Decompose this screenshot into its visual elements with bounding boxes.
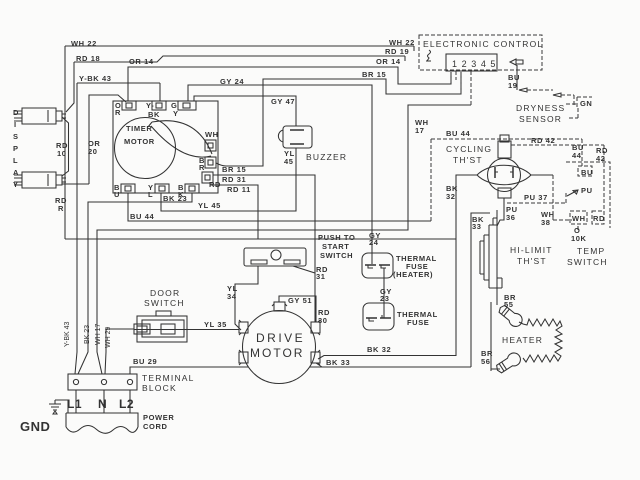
svg-text:Y: Y <box>173 109 179 118</box>
L1 N L2 labels <box>67 397 134 411</box>
svg-text:20: 20 <box>88 147 98 156</box>
svg-text:OR 14: OR 14 <box>129 57 154 66</box>
dryness sensor connector arrows <box>519 88 574 106</box>
wire GY 23 between fuses <box>380 268 392 318</box>
control input squiggle <box>426 50 431 61</box>
ground symbol and GND <box>20 400 68 434</box>
wire BU 44 timer to cycling area <box>128 193 431 221</box>
svg-text:WH 22: WH 22 <box>71 39 97 48</box>
svg-text:TIMER: TIMER <box>126 124 152 133</box>
cycling thermostat <box>446 135 531 198</box>
display connector lower <box>14 172 66 188</box>
svg-text:MOTOR: MOTOR <box>124 137 155 146</box>
svg-text:POWER: POWER <box>143 413 174 422</box>
svg-text:L: L <box>148 190 153 199</box>
svg-text:33: 33 <box>472 222 482 231</box>
svg-text:56: 56 <box>481 357 491 366</box>
svg-text:BR 15: BR 15 <box>222 165 246 174</box>
svg-text:TERMINAL: TERMINAL <box>142 373 195 383</box>
svg-text:N: N <box>98 397 107 411</box>
wire RD bus display to right <box>65 238 456 240</box>
svg-text:19: 19 <box>508 81 518 90</box>
heater lower terminal cone <box>481 302 523 376</box>
svg-text:23: 23 <box>380 294 390 303</box>
wire BU 29 terminal block to motor circuit <box>130 357 248 374</box>
svg-text:CORD: CORD <box>143 422 167 431</box>
drive motor <box>243 311 316 384</box>
motor terminal left-upper <box>239 320 248 335</box>
hi-limit thermostat <box>480 210 553 305</box>
wire WH 29 door switch to terminal block <box>105 329 134 374</box>
thermal fuse heater <box>362 253 437 279</box>
svg-text:12345: 12345 <box>452 59 500 69</box>
svg-text:U: U <box>114 190 120 199</box>
temp switch text <box>567 246 608 267</box>
svg-text:RD 18: RD 18 <box>76 54 100 63</box>
wire GY 51 motor top loop <box>279 296 316 322</box>
temp switch terminal WH <box>570 211 587 224</box>
wire BR 15 timer to control <box>216 70 461 174</box>
svg-text:Y-BK 43: Y-BK 43 <box>79 74 112 83</box>
wire RD 11 timer to bus <box>210 185 258 239</box>
temp switch resistor 10K <box>571 226 587 243</box>
svg-text:17: 17 <box>415 126 425 135</box>
electronic control box <box>419 35 543 70</box>
svg-text:BK 23: BK 23 <box>163 194 187 203</box>
wire RD 31 timer to push-to-start <box>213 175 328 281</box>
timer terminal BU <box>114 183 135 199</box>
wire RD 18 / RD 19 horizontal <box>74 47 409 63</box>
svg-text:36: 36 <box>506 213 516 222</box>
svg-text:TH'ST: TH'ST <box>453 155 483 165</box>
svg-text:BK 23: BK 23 <box>84 325 91 344</box>
svg-text:I: I <box>14 120 17 129</box>
wire Y-BK 43 left vertical to terminal block <box>75 83 77 374</box>
svg-text:ELECTRONIC CONTROL: ELECTRONIC CONTROL <box>423 39 543 49</box>
svg-text:SWITCH: SWITCH <box>567 257 608 267</box>
timer terminal Y-BK <box>146 101 166 119</box>
timer terminal G-Y <box>171 101 196 118</box>
timer terminal BK <box>178 183 199 199</box>
timer motor box <box>113 101 218 193</box>
dryness sensor label GN <box>577 97 592 108</box>
wire BU 19 <box>508 65 520 90</box>
control connector arrow right <box>510 59 523 65</box>
push to start switch <box>244 233 355 266</box>
timer terminal WH <box>205 130 219 151</box>
svg-text:(HEATER): (HEATER) <box>393 270 433 279</box>
svg-text:RD 31: RD 31 <box>222 175 246 184</box>
rotated wire labels <box>64 321 112 348</box>
wire WH 22 left vertical / RD R down to bus <box>55 46 67 239</box>
svg-text:GND: GND <box>20 419 50 434</box>
svg-text:Y-BK 43: Y-BK 43 <box>64 321 71 347</box>
svg-text:PUSH TO: PUSH TO <box>318 233 355 242</box>
svg-text:P: P <box>13 144 19 153</box>
thermal fuse lower <box>363 303 438 330</box>
svg-text:10: 10 <box>57 149 67 158</box>
svg-text:GY 51: GY 51 <box>288 296 312 305</box>
svg-text:PU 37: PU 37 <box>524 193 548 202</box>
svg-text:YL 35: YL 35 <box>204 320 227 329</box>
svg-text:BU 44: BU 44 <box>130 212 154 221</box>
power cord <box>66 413 174 433</box>
timer terminal YL <box>148 183 169 199</box>
dryness sensor text <box>516 103 578 124</box>
svg-text:R: R <box>199 163 205 172</box>
svg-text:L1: L1 <box>67 397 82 411</box>
svg-text:GY 24: GY 24 <box>220 77 244 86</box>
svg-text:32: 32 <box>446 192 456 201</box>
door switch <box>134 288 187 342</box>
svg-text:BK 33: BK 33 <box>326 358 350 367</box>
wire BK 23 timer to terminal block <box>78 193 192 374</box>
wire BK 32 cycling to motor <box>318 175 477 359</box>
svg-text:R: R <box>58 204 64 213</box>
svg-text:10K: 10K <box>571 234 587 243</box>
wire BU 44 riser and dashed run to temp switch <box>431 129 584 221</box>
svg-text:CYCLING: CYCLING <box>446 144 492 154</box>
svg-text:BLOCK: BLOCK <box>142 383 177 393</box>
wires terminal block to power cord <box>76 390 130 413</box>
svg-text:OR 14: OR 14 <box>376 57 401 66</box>
electronic control terminal strip 1 2 3 4 5 <box>446 54 500 71</box>
temp switch wiper arrow PU <box>567 186 593 196</box>
wire PU 36 cycling to hi-limit <box>497 198 518 226</box>
svg-text:SENSOR: SENSOR <box>519 114 562 124</box>
svg-text:RD 19: RD 19 <box>385 47 409 56</box>
svg-text:34: 34 <box>227 292 237 301</box>
svg-text:HEATER: HEATER <box>502 335 543 345</box>
wire YL 34 push-to-start to motor <box>227 266 258 330</box>
motor terminal left-lower <box>239 350 248 365</box>
motor terminal top <box>272 302 287 311</box>
svg-text:WH 17: WH 17 <box>95 324 102 346</box>
svg-text:55: 55 <box>504 300 514 309</box>
timer terminal RD <box>202 172 221 189</box>
wire RD 18 vertical to display <box>66 62 74 112</box>
wire WH 38 dashed cycling right to temp switch <box>530 175 572 227</box>
svg-text:DRYNESS: DRYNESS <box>516 103 565 113</box>
timer terminal OR <box>115 101 136 117</box>
wire WH 17 riser to control <box>470 71 472 105</box>
svg-text:BR 15: BR 15 <box>362 70 386 79</box>
display connector upper <box>14 108 66 124</box>
wire WH 17 long neutral run <box>97 105 471 374</box>
wire GY 47 from timer to buzzer <box>194 96 296 126</box>
svg-text:DRIVE: DRIVE <box>256 331 305 345</box>
svg-text:TEMP: TEMP <box>577 246 605 256</box>
svg-text:BU 44: BU 44 <box>446 129 470 138</box>
svg-text:BK: BK <box>148 110 160 119</box>
motor terminal right-upper <box>311 320 320 335</box>
wire RD 30 push-to-start to motor <box>315 273 330 325</box>
svg-text:SWITCH: SWITCH <box>320 251 353 260</box>
control terminal tails dashed <box>451 71 461 94</box>
svg-text:RD: RD <box>593 214 605 223</box>
svg-text:RD 11: RD 11 <box>227 185 251 194</box>
svg-text:L: L <box>13 156 18 165</box>
svg-text:WH 22: WH 22 <box>389 38 415 47</box>
svg-text:HI-LIMIT: HI-LIMIT <box>510 245 553 255</box>
svg-text:38: 38 <box>541 218 551 227</box>
svg-text:WH: WH <box>572 214 586 223</box>
wire BK 33 motor to hi-limit <box>310 213 490 367</box>
wire RD 42 dashed cycling to temp switch <box>511 136 608 211</box>
svg-text:MOTOR: MOTOR <box>250 346 304 360</box>
svg-text:SWITCH: SWITCH <box>144 298 185 308</box>
svg-text:D: D <box>13 108 19 117</box>
svg-text:A: A <box>13 168 19 177</box>
svg-text:Y-: Y- <box>146 101 154 110</box>
wire GY 24 from timer to thermal fuse <box>188 77 381 264</box>
wire OR 20 from lower connector to timer <box>62 95 126 184</box>
svg-text:GY 47: GY 47 <box>271 97 295 106</box>
terminal block <box>68 373 195 393</box>
temp switch terminal BU <box>578 166 593 177</box>
svg-text:YL 45: YL 45 <box>198 201 221 210</box>
svg-text:GN: GN <box>580 99 592 108</box>
timer terminal BR <box>199 156 216 172</box>
svg-text:S: S <box>13 132 19 141</box>
svg-text:DOOR: DOOR <box>150 288 180 298</box>
svg-text:WH 29: WH 29 <box>105 327 112 349</box>
svg-text:44: 44 <box>572 151 582 160</box>
display vertical label <box>13 108 19 189</box>
wire YL 45 buzzer to timer YL <box>161 148 296 211</box>
svg-text:FUSE: FUSE <box>407 318 429 327</box>
heater upper terminal cone <box>496 293 525 329</box>
svg-text:BU 29: BU 29 <box>133 357 157 366</box>
svg-text:START: START <box>322 242 349 251</box>
svg-text:Y: Y <box>13 180 19 189</box>
buzzer <box>278 126 347 166</box>
timer cam arm curves <box>148 121 212 157</box>
heater coil <box>502 319 562 362</box>
svg-text:RD 42: RD 42 <box>531 136 555 145</box>
wire Y-BK 43 top horizontal <box>77 74 160 101</box>
svg-text:L2: L2 <box>119 397 134 411</box>
temp switch dashed outline <box>566 162 610 228</box>
svg-text:BK 32: BK 32 <box>367 345 391 354</box>
svg-text:45: 45 <box>284 157 294 166</box>
wire WH 22 top horizontal <box>65 38 415 51</box>
wire OR 14 horizontal from timer to control <box>128 57 451 101</box>
svg-text:PU: PU <box>581 186 593 195</box>
wire RD 10 between display connectors <box>56 117 69 176</box>
svg-text:WH: WH <box>205 130 219 139</box>
svg-text:BU: BU <box>581 168 593 177</box>
svg-text:31: 31 <box>316 272 326 281</box>
svg-text:TH'ST: TH'ST <box>517 256 547 266</box>
wire PU 37 dashed to temp switch <box>507 192 566 203</box>
motor terminal right-lower <box>311 350 320 365</box>
svg-text:BUZZER: BUZZER <box>306 152 347 162</box>
svg-text:R: R <box>115 108 121 117</box>
temp switch terminal RD <box>592 211 605 224</box>
wire YL 35 door switch to motor <box>134 320 239 330</box>
timer motor circle <box>115 118 176 179</box>
